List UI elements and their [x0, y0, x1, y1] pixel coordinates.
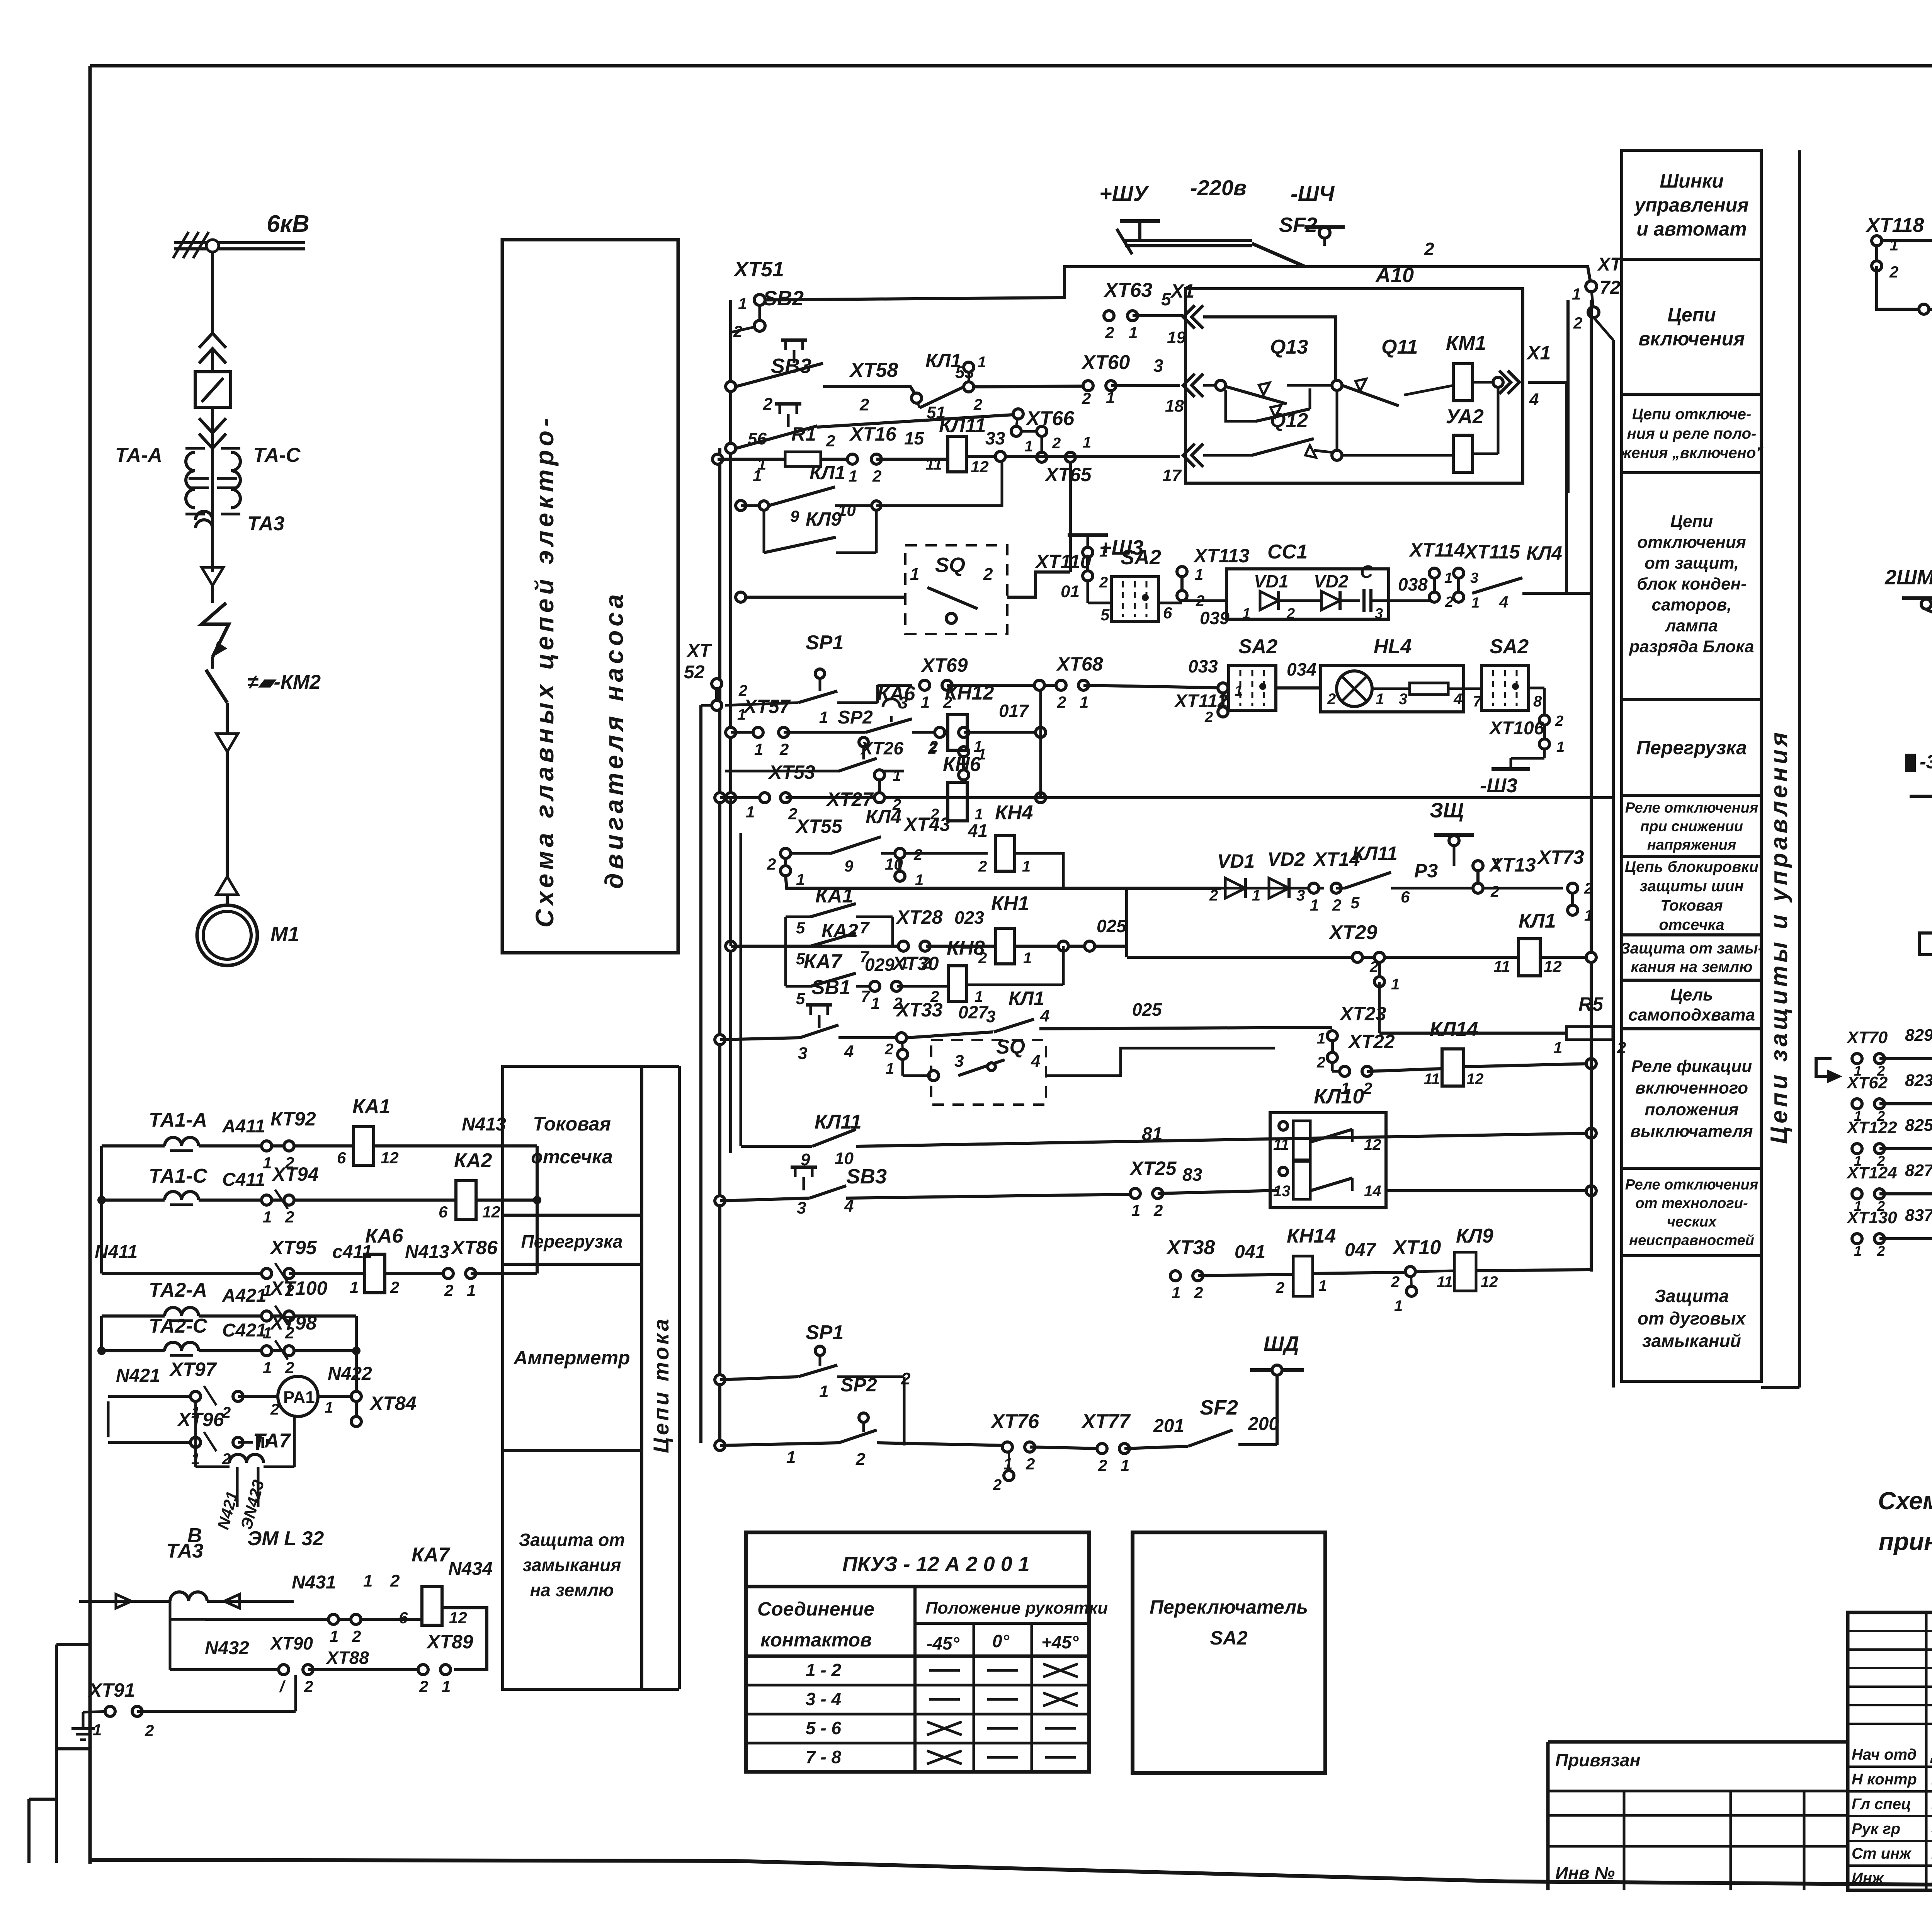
svg-text:2: 2 [390, 1571, 400, 1590]
svg-text:ХТ65: ХТ65 [1044, 464, 1092, 485]
svg-text:КЛ9: КЛ9 [806, 508, 842, 530]
svg-text:КЛ11: КЛ11 [939, 414, 986, 437]
svg-text:ХТ58: ХТ58 [849, 359, 898, 381]
svg-text:1: 1 [263, 1154, 272, 1172]
svg-text:Цепь блокировки: Цепь блокировки [1625, 858, 1759, 875]
surge symbol [202, 603, 229, 657]
terminal XT68 [1056, 680, 1066, 690]
terminal XT106 pair [1539, 715, 1549, 725]
svg-text:81: 81 [1142, 1124, 1162, 1144]
svg-text:11: 11 [1437, 1273, 1453, 1290]
svg-text:КН8: КН8 [947, 937, 985, 959]
svg-text:ЗЩ: ЗЩ [1430, 799, 1464, 822]
table PKU3-12A2001 [746, 1532, 1089, 1772]
svg-text:33: 33 [985, 428, 1005, 448]
svg-text:ХТ94: ХТ94 [271, 1163, 319, 1185]
terminal XT23 pair [1327, 1031, 1337, 1041]
svg-text:Q13: Q13 [1270, 336, 1308, 358]
rung XT63 X1-19 [1104, 311, 1114, 321]
svg-text:КН4: КН4 [995, 802, 1033, 824]
svg-text:7: 7 [860, 918, 870, 937]
svg-text:SQ: SQ [996, 1036, 1025, 1058]
TA7 tails [236, 1467, 239, 1507]
current circuit label boxes [503, 1066, 642, 1689]
svg-text:12: 12 [971, 458, 989, 476]
riser and CT TA7 [194, 1401, 197, 1467]
svg-text:ХТ10: ХТ10 [1392, 1236, 1441, 1259]
svg-text:823: 823 [1905, 1071, 1932, 1090]
svg-text:ХТ88: ХТ88 [325, 1648, 369, 1668]
svg-text:2: 2 [1194, 1284, 1203, 1302]
terminal XT55 pair [781, 848, 791, 858]
terminal XT73 pair [1568, 883, 1578, 893]
svg-text:1: 1 [893, 767, 901, 784]
svg-text:ХТ130: ХТ130 [1846, 1208, 1897, 1227]
svg-text:ХТ33: ХТ33 [895, 999, 943, 1021]
coil KH4 [995, 836, 1015, 871]
svg-text:управления: управления [1633, 194, 1748, 216]
svg-text:ХТ: ХТ [686, 641, 712, 661]
CT TA-C [231, 452, 240, 508]
svg-text:КЛ10: КЛ10 [1314, 1085, 1364, 1108]
svg-text:4: 4 [844, 1042, 854, 1061]
contact Q13 lower parallel [1226, 390, 1256, 421]
svg-text:19: 19 [1167, 328, 1186, 347]
svg-text:ХТ28: ХТ28 [895, 906, 943, 928]
svg-text:2: 2 [779, 740, 789, 758]
svg-text:SB2: SB2 [763, 287, 804, 310]
svg-text:N434: N434 [448, 1559, 493, 1579]
terminal XT53 [760, 793, 770, 803]
wire from SQ to right [1007, 572, 1070, 597]
current circuits left bus [100, 1146, 103, 1273]
svg-text:от дуговых: от дуговых [1638, 1308, 1747, 1328]
terminal XT58 [912, 393, 922, 403]
rung SB2 XT58 KL1 XT61 [726, 381, 736, 392]
svg-text:Нач отд: Нач отд [1852, 1746, 1917, 1763]
terminal XT25 [1130, 1188, 1140, 1199]
svg-text:Токовая: Токовая [1660, 897, 1723, 914]
resistor R5 [1566, 1027, 1613, 1040]
svg-text:Положение рукоятки: Положение рукоятки [925, 1599, 1108, 1617]
svg-text:КЛ1: КЛ1 [1519, 910, 1556, 932]
svg-text:ХТ70: ХТ70 [1846, 1028, 1888, 1047]
contact KL1 seal-in [994, 1019, 1034, 1032]
svg-text:КН12: КН12 [945, 682, 994, 704]
svg-text:6: 6 [337, 1149, 346, 1167]
coil KH12 [948, 715, 967, 750]
matrix row4 left hook arrow [1919, 933, 1932, 955]
wire to XT69 [878, 684, 912, 687]
terminal XT98 [262, 1346, 272, 1356]
svg-text:+ШУ: +ШУ [1099, 181, 1150, 206]
svg-text:Ст инж: Ст инж [1852, 1845, 1912, 1862]
svg-text:2: 2 [1555, 713, 1563, 729]
svg-text:Шинки: Шинки [1660, 170, 1724, 192]
svg-text:2: 2 [855, 1450, 866, 1469]
svg-text:2: 2 [1445, 594, 1453, 610]
svg-text:18: 18 [1165, 397, 1184, 415]
svg-text:1: 1 [1572, 285, 1581, 303]
terminal XT28 [898, 941, 908, 951]
svg-text:1: 1 [1022, 858, 1031, 875]
rung TA2-C XT98 [165, 1342, 199, 1351]
sheet frame [90, 64, 1932, 68]
svg-text:КЛ1: КЛ1 [810, 462, 845, 484]
svg-text:1: 1 [263, 1359, 272, 1377]
svg-text:1: 1 [1889, 236, 1898, 254]
node on 6kV bus [206, 240, 219, 252]
svg-text:2: 2 [1316, 1054, 1325, 1071]
svg-text:Защита от: Защита от [519, 1530, 625, 1550]
coil KA2 current [456, 1181, 476, 1219]
rung TA1-A KA1 [165, 1137, 199, 1146]
svg-text:1: 1 [910, 565, 919, 584]
svg-text:VD2: VD2 [1314, 571, 1349, 591]
svg-text:837: 837 [1905, 1206, 1932, 1225]
svg-text:1: 1 [330, 1627, 338, 1645]
svg-text:Привязан: Привязан [1555, 1750, 1640, 1770]
motor M1 [197, 905, 257, 965]
svg-text:А421: А421 [222, 1285, 267, 1306]
contact KL9 [763, 510, 765, 553]
svg-text:контактов: контактов [760, 1629, 872, 1651]
terminal XT52 [712, 679, 722, 689]
svg-text:С421: С421 [222, 1320, 267, 1341]
svg-text:Схема главных цепей электро: Схема главных цепей электро- [530, 414, 559, 928]
terminal XT90 [279, 1665, 289, 1675]
svg-text:12: 12 [482, 1203, 500, 1221]
svg-text:напряжения: напряжения [1647, 837, 1736, 853]
svg-text:3: 3 [954, 1052, 964, 1071]
svg-text:14: 14 [1364, 1183, 1381, 1200]
node 33 [995, 451, 1005, 461]
svg-text:023: 023 [954, 907, 984, 928]
matrix row ХТ105 ХТ106 [1905, 754, 1916, 772]
wire to CTs [211, 448, 214, 572]
left edge strip [55, 1645, 58, 1863]
svg-text:2: 2 [1026, 1455, 1035, 1473]
terminal XT72 [1586, 281, 1597, 292]
left bus A [729, 300, 732, 1153]
lamp HL4 [1337, 671, 1372, 707]
svg-text:SA2: SA2 [1490, 635, 1529, 658]
node before X1-4 [1493, 377, 1503, 387]
svg-text:1: 1 [1854, 1243, 1862, 1259]
terminal XT14 [1309, 883, 1319, 893]
svg-text:2: 2 [1276, 1279, 1284, 1296]
svg-text:1: 1 [753, 466, 762, 485]
svg-text:2: 2 [270, 1401, 279, 1418]
cluster row ХТ70 КЛ1 ХТ71 [1852, 1054, 1862, 1064]
svg-text:ХТ84: ХТ84 [369, 1393, 417, 1414]
svg-text:1: 1 [1252, 887, 1260, 904]
svg-text:2: 2 [1490, 883, 1499, 900]
group TA2 frame [87, 1299, 87, 1467]
terminal XT97 [190, 1391, 201, 1401]
svg-text:4: 4 [1031, 1052, 1040, 1071]
resistor R1 [785, 452, 821, 466]
terminal XT57 [753, 727, 763, 737]
svg-text:2: 2 [872, 467, 881, 485]
rung Q12 UA2 [1183, 444, 1195, 467]
svg-text:1: 1 [1172, 1284, 1180, 1302]
6kV busbar [174, 241, 305, 244]
terminal XT60 [1083, 381, 1093, 391]
svg-text:Х1: Х1 [1170, 280, 1194, 302]
svg-text:ХТ57: ХТ57 [743, 696, 791, 717]
CT TA3 [196, 511, 213, 528]
svg-text:Цель: Цель [1670, 985, 1713, 1004]
svg-text:КЛ1: КЛ1 [1009, 987, 1044, 1009]
svg-text:12: 12 [1544, 957, 1562, 976]
svg-text:ТА3: ТА3 [166, 1540, 203, 1562]
terminal XT66 pair [1013, 409, 1023, 419]
svg-text:15: 15 [904, 428, 925, 448]
svg-text:ХТ51: ХТ51 [733, 258, 784, 281]
svg-text:2: 2 [1057, 693, 1066, 711]
svg-text:2: 2 [1889, 263, 1898, 281]
svg-text:1: 1 [1242, 606, 1250, 622]
svg-text:2: 2 [1099, 574, 1108, 591]
svg-text:6: 6 [439, 1203, 448, 1221]
svg-text:SB3: SB3 [846, 1165, 887, 1188]
switch block SA2 no.1 [1111, 577, 1158, 621]
terminal XT43 pair [895, 848, 905, 858]
svg-text:ХТ26: ХТ26 [860, 738, 903, 758]
svg-text:неисправностей: неисправностей [1629, 1232, 1754, 1248]
svg-text:2: 2 [983, 565, 993, 584]
svg-text:защиты шин: защиты шин [1639, 878, 1744, 895]
svg-text:7: 7 [861, 987, 871, 1005]
breaker SF2 bottom blade [1188, 1430, 1233, 1446]
svg-text:1: 1 [1235, 683, 1243, 699]
svg-text:2: 2 [285, 1359, 294, 1377]
cluster row ХТ130 КЛ4 ХТ131 [1852, 1234, 1862, 1244]
terminal XT94 [262, 1195, 272, 1205]
svg-text:2: 2 [733, 322, 742, 340]
svg-text:КА7: КА7 [804, 950, 843, 973]
svg-text:1: 1 [819, 708, 828, 726]
svg-text:КА1: КА1 [352, 1095, 390, 1118]
wire into left chevrons [1876, 271, 1877, 309]
svg-text:12: 12 [381, 1149, 399, 1167]
svg-text:≠▰-КМ2: ≠▰-КМ2 [247, 671, 321, 693]
svg-text:56: 56 [748, 429, 767, 448]
svg-text:ТА3: ТА3 [247, 512, 284, 535]
svg-text:А10: А10 [1375, 264, 1414, 287]
wire 871 [1876, 236, 1877, 241]
svg-text:-Ш3: -Ш3 [1480, 775, 1517, 797]
terminal XT113 pair [1177, 567, 1187, 577]
svg-text:7 - 8: 7 - 8 [806, 1747, 841, 1767]
svg-text:2: 2 [352, 1627, 361, 1645]
svg-text:52: 52 [684, 662, 705, 683]
svg-text:включения: включения [1638, 328, 1745, 350]
svg-text:825: 825 [1905, 1116, 1932, 1135]
svg-text:SP1: SP1 [806, 1321, 844, 1344]
svg-text:4: 4 [1040, 1006, 1049, 1025]
svg-text:Схема выполнена на основани: Схема выполнена на основании заводской [1878, 1487, 1932, 1515]
svg-text:1: 1 [325, 1399, 333, 1416]
ground mark XT96 [256, 1435, 259, 1450]
svg-text:Токовая: Токовая [533, 1113, 611, 1135]
coil KH6 [948, 782, 967, 821]
svg-text:КЛ9: КЛ9 [1456, 1225, 1493, 1247]
wire drop from bus [211, 252, 214, 333]
coil KA7 current [422, 1587, 442, 1625]
diode VD2 in CC1 [1321, 591, 1340, 610]
terminal XT100 [262, 1311, 272, 1321]
svg-text:Цепи отключе-: Цепи отключе- [1632, 406, 1752, 423]
svg-text:3: 3 [1399, 691, 1407, 708]
svg-text:ХТ43: ХТ43 [903, 814, 951, 835]
riser from XT68 rung down [1039, 690, 1042, 798]
svg-text:КН14: КН14 [1287, 1225, 1336, 1247]
riser 025 to VD rung [1125, 890, 1128, 957]
svg-text:Амперметр: Амперметр [513, 1347, 630, 1369]
svg-text:при снижении: при снижении [1640, 818, 1743, 834]
terminal XT33 pair [896, 1033, 906, 1043]
svg-text:Х1: Х1 [1526, 342, 1551, 364]
svg-text:ХТ86: ХТ86 [450, 1237, 498, 1258]
svg-text:SB3: SB3 [771, 354, 811, 378]
svg-text:4: 4 [1453, 691, 1462, 708]
svg-text:HL4: HL4 [1374, 635, 1412, 658]
svg-text:6: 6 [1163, 604, 1172, 622]
coil KH1 [996, 928, 1014, 964]
svg-text:1: 1 [819, 1382, 828, 1401]
svg-text:ХТ90: ХТ90 [269, 1633, 313, 1653]
rung TA3 KA7 [170, 1592, 207, 1601]
svg-text:ХТ118: ХТ118 [1865, 214, 1924, 237]
svg-text:1: 1 [1318, 1277, 1327, 1294]
svg-text:ХТ: ХТ [1597, 254, 1623, 275]
arrow up open [216, 877, 238, 895]
svg-text:5 - 6: 5 - 6 [806, 1718, 841, 1738]
svg-text:1: 1 [1195, 566, 1203, 583]
svg-text:SP1: SP1 [806, 632, 844, 654]
terminal XT65 [1037, 452, 1047, 462]
svg-text:9: 9 [844, 857, 854, 875]
svg-text:1: 1 [871, 994, 880, 1012]
left bus B [718, 448, 721, 1445]
svg-text:11: 11 [1493, 957, 1510, 976]
svg-text:Инж: Инж [1852, 1870, 1884, 1887]
svg-text:от защит,: от защит, [1645, 553, 1739, 572]
svg-text:N421: N421 [116, 1365, 160, 1386]
svg-text:Цепи защиты и управления: Цепи защиты и управления [1766, 729, 1793, 1144]
svg-text:1: 1 [93, 1721, 102, 1739]
ground bar -Sh3 [1492, 767, 1530, 771]
rung KA1 KA2 XT28 KH1 [726, 941, 736, 951]
svg-text:2: 2 [901, 1369, 911, 1388]
svg-text:Цепи: Цепи [1670, 512, 1713, 531]
svg-text:1: 1 [921, 693, 930, 711]
rung SB3 XT66 [726, 443, 736, 453]
svg-text:2: 2 [1105, 323, 1114, 342]
coil KL9 [1454, 1252, 1476, 1291]
svg-text:VD2: VD2 [1267, 848, 1305, 870]
terminal XT110 pair [1083, 547, 1093, 557]
svg-text:1: 1 [1080, 693, 1088, 711]
svg-text:1: 1 [978, 354, 986, 371]
svg-text:033: 033 [1188, 656, 1218, 676]
KA7 right drop [442, 1608, 487, 1670]
svg-text:ТА7: ТА7 [253, 1430, 291, 1452]
svg-text:72: 72 [1600, 278, 1621, 298]
terminal XT86 [443, 1268, 453, 1279]
svg-text:6кВ: 6кВ [267, 211, 310, 237]
contact KL4 [831, 837, 881, 853]
svg-text:-37: -37 [1920, 751, 1932, 773]
svg-text:ХТ114: ХТ114 [1408, 539, 1465, 561]
svg-text:1: 1 [1492, 855, 1501, 872]
coil KL11 [948, 436, 966, 472]
cluster left entry arrow [1816, 1059, 1835, 1076]
svg-text:-45°: -45° [927, 1633, 959, 1653]
coil KA1 current [354, 1127, 374, 1165]
svg-text:6: 6 [399, 1609, 408, 1627]
rung XT57 KA6 XT26 KH12 [726, 727, 736, 737]
rung XT53 XT27 KH6 long wire [715, 793, 725, 803]
svg-text:КЛ11: КЛ11 [1352, 843, 1398, 864]
contact KL1 top [920, 387, 963, 408]
svg-text:блок конден-: блок конден- [1637, 574, 1747, 593]
cluster row ХТ124 КЛ3 ХТ125 [1852, 1189, 1862, 1199]
terminal XT92 [262, 1141, 272, 1151]
wire to motor [226, 752, 229, 877]
svg-text:N413: N413 [405, 1242, 449, 1262]
svg-text:2: 2 [826, 432, 835, 450]
svg-text:ТА2-С: ТА2-С [149, 1315, 208, 1337]
svg-text:1: 1 [796, 870, 805, 889]
terminal XT95 [262, 1268, 272, 1279]
svg-text:1: 1 [746, 803, 755, 821]
svg-text:ТА-А: ТА-А [115, 444, 162, 466]
svg-text:200: 200 [1248, 1414, 1279, 1434]
svg-text:SF2: SF2 [1200, 1396, 1238, 1419]
svg-text:ХТ95: ХТ95 [269, 1237, 317, 1258]
svg-text:ХТ113: ХТ113 [1193, 545, 1250, 567]
bus ShD terminal [1250, 1368, 1304, 1372]
ground -Sh3 [1544, 749, 1545, 758]
rung XT96 ground [108, 1441, 196, 1444]
CT TA-A [186, 452, 195, 508]
svg-text:1: 1 [849, 467, 857, 485]
svg-text:829: 829 [1905, 1026, 1932, 1045]
svg-text:SP2: SP2 [838, 707, 873, 728]
connector X1 pin 4 [1508, 371, 1519, 394]
svg-text:ХТ30: ХТ30 [891, 953, 939, 974]
svg-text:+45°: +45° [1041, 1632, 1079, 1652]
switch cell box [195, 372, 231, 407]
rung KA7 N431 [170, 1611, 170, 1619]
svg-text:1: 1 [1553, 1039, 1562, 1057]
svg-text:1: 1 [1471, 595, 1480, 611]
rung XT38 KH14 XT10 KL9 [1170, 1271, 1180, 1281]
terminal XT88 [328, 1614, 338, 1624]
riser to KL11 rung right [1069, 462, 1072, 572]
coil UA2 in A10 [1453, 435, 1473, 472]
svg-text:4: 4 [844, 1197, 854, 1216]
ammeter PA1 [278, 1376, 318, 1416]
svg-text:N432: N432 [205, 1638, 249, 1658]
svg-text:41: 41 [968, 821, 988, 841]
top control bus from XT51 [731, 326, 760, 332]
svg-text:1: 1 [1121, 1456, 1129, 1474]
svg-text:Инв №: Инв № [1555, 1863, 1615, 1883]
